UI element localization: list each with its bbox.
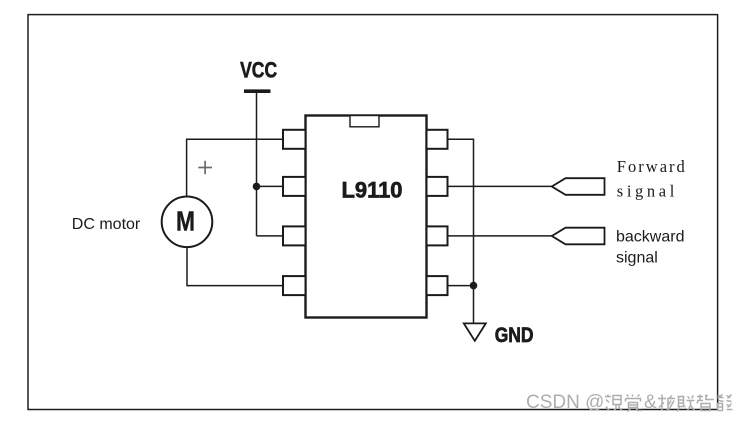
- IC U1 orientation notch: [350, 116, 379, 127]
- svg-text:&: &: [644, 392, 657, 413]
- motor M1: DC motor: [162, 197, 213, 248]
- pin 4 (left, row 4): [283, 276, 306, 295]
- wire: pin 8 to ground rail: [448, 139, 474, 322]
- watermark: CJK glyph 2: [626, 395, 642, 412]
- wire: pin 7 to Forward signal tag: [448, 185, 552, 187]
- ground symbol: [464, 323, 486, 340]
- wire: VCC junction to pin 2: [257, 185, 285, 187]
- power symbol VCC bar: [244, 89, 271, 93]
- svg-text:M: M: [176, 206, 195, 237]
- wire: pin 6 to backward signal tag: [448, 235, 552, 237]
- svg-text:signal: signal: [616, 250, 658, 267]
- svg-text:backward: backward: [616, 228, 684, 245]
- watermark: CJK glyph 5: [697, 395, 714, 411]
- pin 6 (right, row 3): [427, 226, 448, 245]
- IC U1 body: [306, 116, 427, 318]
- watermark: CJK glyph 1: [605, 395, 622, 411]
- svg-text:GND: GND: [495, 324, 534, 347]
- wire: motor + terminal to pin 1: [187, 139, 284, 197]
- wire: VCC vertical rail: [256, 93, 258, 236]
- label: Forward signal: [617, 157, 686, 201]
- svg-text:DC motor: DC motor: [72, 216, 141, 233]
- junction: ground rail at pin 5: [470, 282, 478, 290]
- plus sign: motor polarity: [198, 161, 212, 174]
- label: backward signal: [616, 228, 684, 266]
- watermark: CJK glyph 4: [678, 396, 695, 412]
- connector tag: Forward signal: [552, 178, 605, 195]
- pin 8 (right, row 1): [427, 130, 448, 149]
- watermark: CJK glyph 6: [718, 395, 733, 411]
- pin 7 (right, row 2): [427, 177, 448, 196]
- wire: motor - terminal to pin 4: [187, 247, 284, 286]
- pin 1 (left, row 1): [283, 130, 306, 149]
- connector tag: backward signal: [552, 228, 605, 245]
- pin 3 (left, row 3): [283, 226, 306, 245]
- svg-text:VCC: VCC: [240, 58, 277, 83]
- watermark: CJK glyph 3: [658, 395, 675, 411]
- pin 2 (left, row 2): [283, 177, 306, 196]
- svg-text:L9110: L9110: [342, 177, 403, 202]
- junction: VCC rail to pin 2: [253, 183, 261, 191]
- wire: pin 5 to ground junction: [448, 285, 474, 287]
- wire: VCC rail to pin 3: [257, 235, 285, 237]
- pin 5 (right, row 4): [427, 276, 448, 295]
- svg-text:CSDN @: CSDN @: [526, 392, 604, 413]
